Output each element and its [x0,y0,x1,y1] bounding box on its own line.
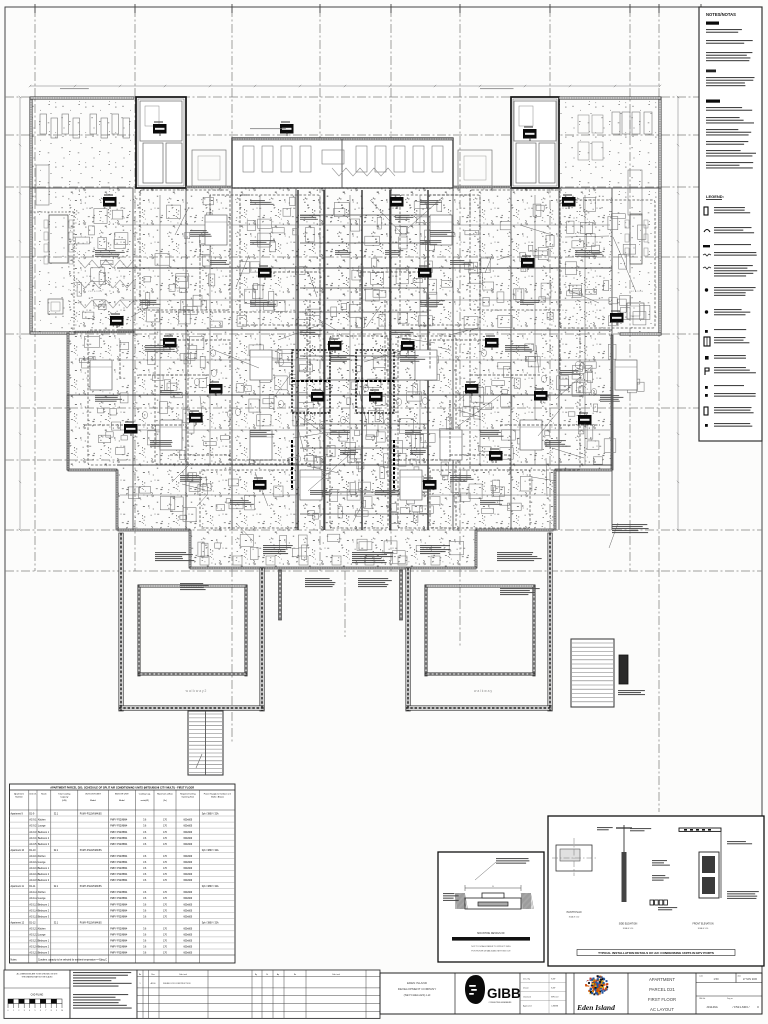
svg-text:Cooling Cap.: Cooling Cap. [139,794,151,796]
svg-text:3ph / 380V / 32A: 3ph / 380V / 32A [202,885,219,888]
svg-text:5: 5 [35,1010,36,1012]
svg-text:Room: Room [41,794,47,796]
svg-text:AC-11.1: AC-11.1 [29,891,38,894]
svg-text:3: 3 [24,1010,25,1012]
svg-text:600x600: 600x600 [183,941,192,943]
svg-text:/ F521-M03 /: / F521-M03 / [732,1005,749,1009]
svg-text:Bedroom 1: Bedroom 1 [38,903,50,906]
svg-text:D1-12: D1-12 [29,922,36,924]
legend items [703,207,757,427]
svg-text:MOUNTING DETAILS OF: MOUNTING DETAILS OF [477,932,505,935]
svg-text:AC-9.1: AC-9.1 [29,819,37,822]
svg-text:Bedroom 3: Bedroom 3 [38,915,50,918]
left courtyard garden wall [138,585,140,676]
dimension line top [29,85,661,87]
svg-text:AC-9.2: AC-9.2 [29,825,37,828]
svg-text:AC-9.5: AC-9.5 [29,843,37,846]
svg-text:PMFY-P32VBM4: PMFY-P32VBM4 [110,862,128,864]
dim texts top [60,88,89,89]
svg-text:SCALE 1:10: SCALE 1:10 [623,927,633,930]
svg-text:Apartment 9: Apartment 9 [11,813,24,816]
svg-text:Condens. capacity to be select: Condens. capacity to be selected for amb… [38,959,107,962]
svg-text:Apartment: Apartment [14,793,24,796]
building speckle texture [68,188,612,470]
svg-text:date: date [738,975,741,978]
svg-text:Sub. task: Sub. task [179,973,187,976]
right courtyard outer wall [406,568,411,711]
svg-text:600x600: 600x600 [183,898,192,900]
svg-text:7: 7 [45,1010,46,1012]
svg-text:1: 1 [140,983,141,985]
svg-text:No: No [139,974,141,976]
svg-text:Bedroom 3: Bedroom 3 [38,952,50,955]
svg-text:600x600: 600x600 [183,844,192,846]
left wing furniture [36,114,130,314]
svg-text:600x600: 600x600 [183,874,192,876]
svg-text:LEGEND:: LEGEND: [706,194,724,199]
svg-text:600x600: 600x600 [183,820,192,822]
svg-text:FIRST FLOOR: FIRST FLOOR [648,997,676,1002]
svg-text:PMFY-P32VBM4: PMFY-P32VBM4 [110,898,128,900]
extra center clusters [250,215,441,255]
notes headings and paragraphs [706,22,756,169]
center bulge steps [200,556,440,565]
svg-text:PMFY-P32VBM4: PMFY-P32VBM4 [110,832,128,834]
svg-text:Checked: Checked [523,997,531,999]
svg-text:Capacity: Capacity [60,796,69,799]
svg-text:SJW: SJW [551,988,555,990]
svg-text:600x600: 600x600 [183,856,192,858]
svg-text:PMFY-P32VBM4: PMFY-P32VBM4 [110,935,128,937]
central core walls [298,190,428,530]
svg-text:9: 9 [56,1010,57,1012]
svg-text:SJW: SJW [551,979,555,981]
svg-text:AC-11.5: AC-11.5 [29,915,38,918]
svg-text:Bedroom 2: Bedroom 2 [38,837,50,840]
left tower walls [136,97,186,188]
svg-text:600x600: 600x600 [183,916,192,918]
svg-text:SIDE ELEVATION: SIDE ELEVATION [619,923,638,926]
svg-text:ISSUED FOR CONSTRUCTION: ISSUED FOR CONSTRUCTION [163,983,191,985]
svg-text:PMFY-P32VBM4: PMFY-P32VBM4 [110,947,128,949]
top-center block walls [232,138,453,188]
dimension line right [677,96,679,531]
svg-text:AC-9.3: AC-9.3 [29,831,37,834]
svg-text:Dwg no: Dwg no [727,998,733,1000]
svg-text:Model: Model [119,800,125,802]
svg-text:PMFY-P32VBM4: PMFY-P32VBM4 [110,928,128,930]
svg-text:CONSULTING ENGINEERS: CONSULTING ENGINEERS [489,1002,513,1004]
svg-text:PMFY-P32VBM4: PMFY-P32VBM4 [110,838,128,840]
notes panel box [699,7,762,441]
svg-text:Apartment 10: Apartment 10 [11,849,25,852]
svg-text:Drawn: Drawn [523,988,529,990]
svg-text:A2-90: A2-90 [151,982,156,985]
svg-text:PARCEL D21: PARCEL D21 [649,987,675,992]
right tower rooms [514,101,556,183]
svg-text:3ph / 380V / 32A: 3ph / 380V / 32A [202,813,219,816]
svg-text:1: 1 [13,1010,14,1012]
lift shaft dark bar [619,655,628,684]
svg-text:600x600: 600x600 [183,953,192,955]
svg-text:600x600: 600x600 [183,928,192,930]
svg-text:EDEN ISLAND: EDEN ISLAND [407,981,428,985]
svg-text:600x600: 600x600 [183,947,192,949]
right wing outer walls [659,97,661,335]
svg-text:CAD file: CAD file [699,997,705,1000]
svg-text:600x600: 600x600 [183,910,192,912]
svg-text:(SEYCHELLES) Ltd: (SEYCHELLES) Ltd [404,993,431,997]
svg-text:CJMMB: CJMMB [551,1006,559,1008]
svg-text:6: 6 [40,1010,41,1012]
svg-text:3ph / 380V / 32A: 3ph / 380V / 32A [202,849,219,852]
svg-text:AC LAYOUT: AC LAYOUT [650,1007,674,1012]
svg-text:Bedroom 2: Bedroom 2 [38,909,50,912]
svg-text:Apartment 11: Apartment 11 [11,885,25,888]
svg-text:SCALE 1:10: SCALE 1:10 [698,927,708,930]
mid link top walls [186,186,232,188]
svg-text:J31146A: J31146A [706,1005,718,1009]
svg-text:D1-11: D1-11 [29,886,36,888]
svg-text:CAD FILING: CAD FILING [31,994,44,997]
svg-text:AC-11.2: AC-11.2 [29,897,38,900]
svg-text:FOR PLINTH DETAILS AND SETTING: FOR PLINTH DETAILS AND SETTING OUT [471,950,511,953]
svg-text:Maximum airflow: Maximum airflow [157,793,173,796]
svg-text:600x600: 600x600 [183,935,192,937]
svg-text:600x600: 600x600 [183,880,192,882]
below-building label clusters [155,524,649,595]
svg-text:Bedroom 2: Bedroom 2 [38,946,50,949]
svg-text:PMFY-P32VBM4: PMFY-P32VBM4 [110,880,128,882]
svg-text:D1-9: D1-9 [29,814,35,816]
svg-text:Sub. task: Sub. task [332,973,340,976]
svg-text:Apartment 12: Apartment 12 [11,921,25,924]
svg-text:NOTES/NOTAS: NOTES/NOTAS [706,12,736,17]
svg-text:8: 8 [51,1010,52,1012]
schedule table [10,784,236,963]
svg-text:32.1: 32.1 [54,850,59,852]
svg-text:Des. By: Des. By [523,979,530,981]
svg-text:w a l k w a y 2: w a l k w a y 2 [186,689,207,693]
svg-text:AC-9.4: AC-9.4 [29,837,37,840]
svg-text:Required Ceiling: Required Ceiling [180,793,196,796]
svg-text:AC-11.4: AC-11.4 [29,909,38,912]
AC condensing unit markers [103,121,624,492]
planter wall stubs [279,570,282,620]
svg-text:600x600: 600x600 [183,826,192,828]
left courtyard outer wall [119,533,124,711]
svg-text:WPL/JO: WPL/JO [551,997,559,999]
piping dashed runs [84,195,600,475]
svg-text:PUMY-P112VKM4.BS: PUMY-P112VKM4.BS [80,814,102,816]
svg-text:Bedroom 1: Bedroom 1 [38,940,50,943]
svg-text:w a l k w a y: w a l k w a y [474,689,492,693]
svg-text:FRONT ELEVATION: FRONT ELEVATION [692,923,713,926]
svg-text:No: No [294,974,296,976]
svg-text:600x600: 600x600 [183,892,192,894]
svg-text:Ch: Ch [266,974,268,976]
svg-text:600x600: 600x600 [183,862,192,864]
svg-text:By: By [255,974,257,976]
svg-text:Ap: Ap [277,973,279,976]
svg-text:THE DRAWING MAY NOT BE SCALED: THE DRAWING MAY NOT BE SCALED [22,975,54,978]
svg-text:Kitchen: Kitchen [38,855,46,858]
svg-text:TYPICAL INSTALLATION DETAILS O: TYPICAL INSTALLATION DETAILS OF A/C COND… [598,951,714,955]
svg-text:ALL DIMENSIONS ARE TO BE CHECK: ALL DIMENSIONS ARE TO BE CHECKED ON SITE [17,973,59,976]
svg-text:Number: Number [15,796,23,799]
svg-text:PMFY-P32VBM4: PMFY-P32VBM4 [110,820,128,822]
right wing furniture [578,112,652,319]
room furniture scatter [76,197,650,564]
svg-text:Lounge: Lounge [38,826,46,828]
svg-text:PMFY-P32VBM4: PMFY-P32VBM4 [110,844,128,846]
svg-text:PMFY-P32VBM4: PMFY-P32VBM4 [110,874,128,876]
left wing terrace edge [73,212,75,333]
svg-text:PUMY-P112VKM4.BS: PUMY-P112VKM4.BS [80,922,102,924]
svg-text:Notes:: Notes: [11,959,18,962]
svg-text:PMFY-P32VBM4: PMFY-P32VBM4 [110,904,128,906]
main body outer walls [67,333,69,470]
svg-text:v e r a n d a: v e r a n d a [629,289,643,293]
right courtyard garden wall [425,585,427,676]
svg-text:600x600: 600x600 [183,838,192,840]
svg-text:600x600: 600x600 [183,832,192,834]
svg-text:INDOOR UNIT: INDOOR UNIT [115,794,129,796]
bathroom fixtures [142,337,596,462]
svg-text:Opening Size: Opening Size [182,797,195,799]
svg-text:0: 0 [8,1010,9,1012]
central core dense strip [296,190,430,530]
svg-text:10: 10 [61,1010,63,1012]
svg-text:PMFY-P32VBM4: PMFY-P32VBM4 [110,953,128,955]
svg-text:1:50: 1:50 [713,977,719,981]
small print notes box [70,970,137,1018]
svg-text:SCALE 1:10: SCALE 1:10 [569,916,579,919]
svg-text:Lounge: Lounge [38,898,46,900]
detail box 1: mounting detail [438,852,544,962]
title block [380,973,762,1014]
svg-text:Approved: Approved [523,1005,532,1008]
stair S1 below left courtyard [188,711,223,775]
svg-text:PMFY-P32VBM4: PMFY-P32VBM4 [110,892,128,894]
plumbing wall black dashed frames [292,350,394,413]
svg-text:32.1: 32.1 [54,922,59,924]
svg-text:PMFY-P32VBM4: PMFY-P32VBM4 [110,826,128,828]
svg-text:Kitchen: Kitchen [38,927,46,930]
svg-text:Rev: Rev [151,974,154,976]
stair S1 arrow [196,754,202,768]
svg-text:Bedroom 1: Bedroom 1 [38,867,50,870]
svg-text:Kitchen: Kitchen [38,819,46,822]
stair S3 right [571,639,614,707]
svg-text:Bedroom 2: Bedroom 2 [38,873,50,876]
svg-text:32.1: 32.1 [54,886,59,888]
interior partition walls [30,188,661,530]
svg-text:600x600: 600x600 [183,868,192,870]
top-center block furniture [243,146,443,172]
svg-text:(Volts / Amps): (Volts / Amps) [211,796,224,799]
svg-text:Unit ref.: Unit ref. [29,793,37,796]
svg-text:(kW): (kW) [62,800,67,802]
leader lines [131,197,636,548]
svg-text:watts(W): watts(W) [141,799,150,802]
svg-text:PMFY-P32VBM4: PMFY-P32VBM4 [110,916,128,918]
svg-text:PUMY-P112VKM4.BS: PUMY-P112VKM4.BS [80,850,102,852]
svg-text:AC-11.3: AC-11.3 [29,903,38,906]
svg-text:APARTMENT: APARTMENT [649,977,675,982]
svg-text:Total Cooling: Total Cooling [58,793,71,796]
interior annotation text clusters [95,200,623,505]
dimension line left [19,96,21,531]
svg-text:PMFY-P32VBM4: PMFY-P32VBM4 [110,941,128,943]
svg-text:NOT TO SCALE REFER TO STRUCT D: NOT TO SCALE REFER TO STRUCT DWG [471,945,511,948]
svg-text:scale: scale [699,976,703,978]
svg-text:PMFY-P32VBM4: PMFY-P32VBM4 [110,868,128,870]
svg-text:Bedroom 3: Bedroom 3 [38,879,50,882]
mid link balconies [192,150,226,186]
beds [90,215,637,500]
svg-text:PUMY-P112VKM4.BS: PUMY-P112VKM4.BS [80,886,102,888]
svg-text:27 NOV 2015: 27 NOV 2015 [743,979,758,981]
left wing outer walls [30,97,32,333]
svg-text:Power Supply to Outdoor unit: Power Supply to Outdoor unit [204,793,232,796]
svg-text:PLINTH PLAN: PLINTH PLAN [567,911,582,914]
svg-text:OUTDOOR UNIT: OUTDOOR UNIT [85,794,102,796]
svg-text:APARTMENT PARCEL D21: SCHEDULE: APARTMENT PARCEL D21: SCHEDULE OF SPLIT … [50,786,194,790]
warning and scale bar box [4,970,70,1018]
svg-text:(l/s): (l/s) [163,800,167,802]
svg-text:Lounge: Lounge [38,862,46,864]
secondary room walls [120,195,610,495]
column grid lines [34,8,36,571]
left lower block wall [67,395,69,470]
left tower rooms [140,101,182,183]
right tower walls [511,97,559,188]
pergola zigzags [78,168,395,308]
svg-text:GIBB: GIBB [487,986,521,1001]
svg-text:Bedroom 3: Bedroom 3 [38,843,50,846]
svg-text:D1-10: D1-10 [29,850,36,852]
svg-text:Kitchen: Kitchen [38,891,46,894]
svg-text:2: 2 [18,1010,19,1012]
svg-text:v e r a n d a: v e r a n d a [88,289,102,293]
svg-text:PMFY-P32VBM4: PMFY-P32VBM4 [110,910,128,912]
svg-text:4: 4 [29,1010,30,1012]
row grid lines [5,96,762,98]
svg-text:Eden Island: Eden Island [576,1003,615,1012]
svg-text:600x600: 600x600 [183,904,192,906]
svg-text:Bedroom 1: Bedroom 1 [38,831,50,834]
right annex text cluster [618,690,645,695]
svg-text:Model: Model [90,800,96,802]
svg-text:Lounge: Lounge [38,935,46,937]
detail box 2: typical installation details [548,816,764,966]
svg-text:PMFY-P32VBM4: PMFY-P32VBM4 [110,856,128,858]
revision table [137,970,380,1018]
svg-text:3ph / 380V / 32A: 3ph / 380V / 32A [202,921,219,924]
apartment dashed boundaries [88,190,655,528]
svg-text:DEVELOPMENT COMPANY: DEVELOPMENT COMPANY [398,987,436,991]
svg-text:32.1: 32.1 [54,814,59,816]
